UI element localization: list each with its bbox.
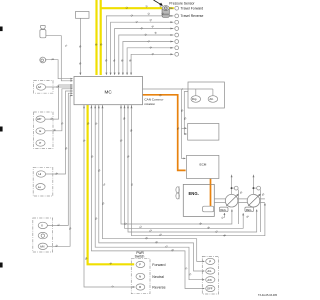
wire MC bottom to OFF contact	[91, 105, 204, 289]
engine governor actuator	[203, 206, 214, 212]
wire yellow feed 1 (top edge to MC top)	[95, 0, 97, 75]
switch Hi	[36, 171, 45, 177]
wire orange inside engine to actuator	[210, 184, 212, 206]
horn component	[40, 57, 46, 63]
wire MC bottom to pump drive sensor line	[132, 105, 265, 236]
wire MC bottom to A/L contact	[99, 105, 205, 271]
wire pilot circle 5 to MC top	[119, 35, 174, 75]
svg-text:H/P: H/P	[37, 117, 42, 121]
svg-text:MC: MC	[105, 90, 113, 95]
dash-dot box A/I	[34, 81, 53, 94]
wire horn to MC left	[46, 60, 73, 79]
wire riser Dig	[182, 88, 195, 96]
wire travel reverse circle to MC top	[106, 16, 173, 75]
wire monitor vertical to ECM	[182, 128, 186, 158]
svg-text:Travel Forward: Travel Forward	[181, 6, 204, 10]
svg-text:X: X	[41, 224, 43, 228]
controller MC box	[74, 77, 143, 105]
switch Lo	[36, 184, 45, 190]
switch E	[36, 128, 45, 134]
wire MC bottom to regulator 2	[125, 105, 244, 229]
wire switch Hi to MC left	[46, 91, 73, 174]
svg-text:ENG.: ENG.	[189, 191, 199, 196]
wire pilot circle 7 to MC top	[127, 48, 173, 75]
regulator 2	[245, 207, 254, 212]
svg-text:A/L: A/L	[207, 269, 212, 273]
svg-text:P: P	[209, 260, 211, 264]
svg-text:T3-4A-05-03-005: T3-4A-05-03-005	[258, 294, 278, 297]
wire CAN communication orange	[143, 95, 211, 206]
contact OFF	[206, 285, 215, 291]
pump 2 pilot riser	[253, 177, 255, 195]
node arrows at pilot circles	[170, 7, 173, 55]
wire lever switch 3 to MC left	[47, 95, 72, 246]
wire pilot circle 3 to MC top	[111, 22, 174, 75]
pump 2	[247, 194, 260, 207]
contact N	[136, 273, 145, 279]
switch P	[36, 140, 45, 146]
wire MC bottom to pump 1 proportional valve	[121, 105, 232, 224]
svg-text:N: N	[139, 275, 141, 279]
svg-text:P: P	[39, 141, 41, 145]
ECM box	[187, 155, 219, 178]
wire regulator 1 feed stub	[223, 213, 225, 218]
pressure sensor body	[162, 6, 169, 18]
svg-text:Neutral: Neutral	[152, 275, 164, 279]
svg-text:OFF: OFF	[207, 287, 213, 291]
wire pump1 pressure tap down	[237, 190, 239, 224]
svg-text:nication: nication	[144, 102, 155, 106]
wire MC bottom to R contact of PWR switch	[84, 105, 135, 287]
wire riser Alt	[212, 89, 214, 96]
edge mark mid-left	[0, 127, 3, 132]
lever switch 1	[38, 222, 47, 228]
wire pilot circle 6 to MC top	[123, 42, 173, 75]
lever switch 2	[38, 232, 47, 238]
contact A/K	[206, 277, 215, 283]
svg-text:Hi: Hi	[39, 172, 42, 176]
engine box	[183, 184, 214, 216]
wire washer bottle to MC left	[46, 36, 73, 81]
svg-text:Reverse: Reverse	[152, 286, 165, 290]
dash-dot box mode switches	[34, 112, 53, 149]
svg-text:REG.: REG.	[220, 208, 227, 212]
switch A/I	[36, 84, 45, 90]
dash-dot box travel speed	[33, 167, 53, 196]
wire inside meter box to Dig and Alt	[143, 88, 213, 90]
edge mark top-left	[0, 27, 3, 32]
contact F	[136, 261, 145, 267]
svg-text:A/K: A/K	[207, 278, 212, 282]
wire yellow MC bottom to F contact of PWR switch	[88, 105, 135, 264]
dash-dot box throttle mode	[202, 256, 218, 294]
pump 1 pilot riser	[231, 177, 233, 195]
pump 1	[225, 194, 238, 207]
wire lever switch 1 to MC left	[47, 93, 72, 225]
svg-text:ECM: ECM	[200, 162, 207, 166]
wire Dig Alt box stub	[184, 92, 188, 135]
wire number labels	[50, 5, 265, 289]
wire CAN branch vertical to monitor box	[182, 89, 187, 128]
engine fan	[176, 186, 179, 199]
svg-text:R: R	[139, 285, 141, 289]
edge mark bottom-left	[0, 263, 3, 268]
wire switch H/P to MC left	[45, 85, 72, 119]
svg-text:F: F	[139, 263, 141, 267]
svg-text:Travel Reverse: Travel Reverse	[181, 14, 204, 18]
svg-text:CAN Commu-: CAN Commu-	[144, 98, 163, 102]
switch H/P	[36, 116, 45, 122]
wire yellow feed 2 (top edge, branch to Travel Forward circle, down to MC)	[100, 0, 102, 75]
connector circles column (travel pilot ports)	[175, 6, 179, 56]
wire pilot circle 8 to MC top	[131, 54, 173, 75]
svg-text:Dig.: Dig.	[192, 97, 197, 101]
contact P	[206, 258, 215, 264]
dash-dot box lever switches	[33, 218, 53, 252]
indicator Alt	[208, 96, 218, 103]
wire switch E to MC left	[45, 89, 72, 131]
svg-text:REG.: REG.	[246, 208, 253, 212]
svg-text:A/I: A/I	[38, 85, 42, 89]
indicator Dig	[191, 96, 201, 103]
svg-text:Forward: Forward	[152, 263, 165, 267]
svg-text:A/N: A/N	[40, 244, 44, 248]
svg-text:Pressure Sensor: Pressure Sensor	[169, 1, 195, 5]
dash-dot box PWR switch	[131, 259, 150, 294]
node arrows into MC bottom edge	[83, 105, 132, 108]
wire MC bottom to P contact	[103, 105, 205, 262]
relay box component top	[76, 12, 90, 19]
svg-text:Lo: Lo	[38, 185, 42, 189]
meter panel box with Dig Alt	[188, 82, 224, 108]
wire pump2 pressure tap down	[260, 190, 262, 232]
wire MC bottom to A/K contact	[95, 105, 204, 280]
pump drive shaft lines	[214, 199, 265, 203]
lever switch 3	[38, 243, 47, 249]
pressure sensor leader arrow	[154, 0, 163, 5]
wire MC bottom to pump 2 proportional valve	[128, 105, 257, 232]
contact A/L	[206, 268, 215, 274]
svg-text:Alt.: Alt.	[209, 97, 213, 101]
monitor box	[188, 124, 219, 141]
washer bottle component	[40, 26, 46, 38]
wire relay box to MC top	[79, 18, 81, 75]
contact R	[136, 284, 145, 290]
svg-text:E: E	[39, 129, 41, 133]
wire pilot circle 4 to MC top	[115, 29, 174, 75]
svg-text:Switch: Switch	[135, 255, 145, 259]
regulator 1	[219, 207, 228, 212]
wire switch A/I to MC left	[46, 86, 73, 88]
wire orange ECM to engine actuator	[210, 179, 212, 207]
